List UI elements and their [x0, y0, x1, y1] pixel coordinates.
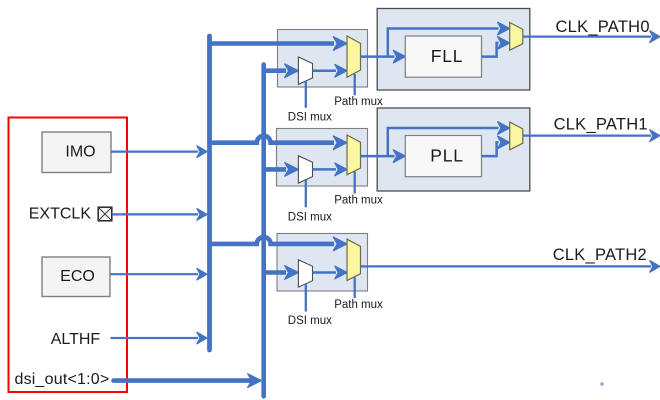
- PLL container: [377, 108, 530, 191]
- mux group 2 box: [277, 234, 368, 292]
- wire PLL output to output mux 1: [482, 136, 510, 156]
- wire CLK_PATH2: [361, 261, 660, 273]
- wire DSI bus to DSI mux 0: [264, 64, 299, 78]
- oscillator IMO: [42, 132, 111, 173]
- wire clock bus to Path mux 1 (hop over DSI bus): [208, 136, 347, 150]
- wire DSI mux 2 to Path mux 2: [313, 266, 347, 279]
- svg-text:FLL: FLL: [431, 46, 464, 66]
- DSI mux 1 select stub: [305, 179, 307, 207]
- svg-text:Path mux: Path mux: [334, 194, 383, 206]
- DSI mux 2 select stub: [305, 283, 307, 311]
- DSI bus (vertical, right): [261, 65, 266, 397]
- FLL container: [377, 9, 530, 91]
- stray dot: [600, 382, 603, 385]
- DSI mux 0: [298, 57, 312, 84]
- wire EXTCLK to clock bus: [112, 209, 207, 221]
- Path mux 1 select stub: [354, 172, 356, 194]
- wire CLK_PATH1: [523, 130, 660, 142]
- svg-text:Path mux: Path mux: [334, 96, 383, 108]
- wire IMO to clock bus: [112, 146, 207, 158]
- Path mux 2 select stub: [354, 277, 356, 298]
- wire ECO to clock bus: [111, 268, 207, 280]
- svg-text:IMO: IMO: [65, 144, 95, 161]
- svg-text:PLL: PLL: [430, 145, 464, 165]
- svg-text:CLK_PATH1: CLK_PATH1: [554, 116, 648, 134]
- oscillator ECO: [42, 257, 110, 297]
- wire DSI bus to DSI mux 2: [264, 266, 299, 280]
- wire clock bus to Path mux 0: [208, 37, 347, 51]
- output mux 1 (PLL bypass mux): [510, 122, 523, 150]
- svg-text:EXTCLK: EXTCLK: [29, 205, 92, 222]
- Path mux 2: [347, 239, 361, 280]
- mux group 1 box: [277, 129, 368, 187]
- DSI mux 2: [298, 260, 312, 287]
- output mux 0 (FLL bypass mux): [510, 23, 523, 51]
- svg-text:ECO: ECO: [60, 268, 95, 285]
- wire FLL output to output mux 0: [482, 37, 510, 57]
- Path mux 0: [347, 36, 361, 77]
- svg-text:DSI mux: DSI mux: [288, 315, 332, 327]
- FLL block: [405, 36, 481, 77]
- EXTCLK pad symbol: [98, 207, 112, 221]
- mux group 0 box: [278, 30, 368, 88]
- svg-text:CLK_PATH0: CLK_PATH0: [556, 18, 650, 36]
- wire Path mux 0 output to FLL input: [361, 50, 406, 63]
- svg-text:DSI mux: DSI mux: [288, 211, 332, 223]
- clock source bus (vertical, left): [207, 36, 212, 350]
- wire Path mux 1 output to PLL input: [361, 150, 406, 163]
- wire DSI mux 0 to Path mux 0: [313, 64, 347, 77]
- wire CLK_PATH0: [523, 31, 660, 43]
- wire FLL bypass to output mux 0: [388, 22, 510, 56]
- Path mux 0 select stub: [354, 74, 356, 95]
- wire DSI bus to DSI mux 1: [264, 163, 299, 177]
- wire PLL bypass to output mux 1: [388, 122, 510, 156]
- wire clock bus to Path mux 2 (hop over DSI bus): [208, 237, 347, 251]
- svg-text:ALTHF: ALTHF: [51, 331, 101, 348]
- svg-text:Path mux: Path mux: [334, 299, 383, 311]
- wire ALTHF to clock bus: [111, 332, 207, 344]
- svg-text:DSI mux: DSI mux: [288, 111, 332, 123]
- source block frame (red): [9, 118, 128, 393]
- svg-text:CLK_PATH2: CLK_PATH2: [553, 246, 647, 264]
- wire dsi_out to DSI bus: [114, 374, 262, 388]
- PLL block: [405, 136, 481, 177]
- wire DSI mux 1 to Path mux 1: [313, 163, 347, 176]
- svg-text:dsi_out<1:0>: dsi_out<1:0>: [15, 371, 110, 388]
- DSI mux 0 select stub: [305, 81, 307, 108]
- Path mux 1: [347, 135, 361, 175]
- DSI mux 1: [298, 156, 312, 183]
